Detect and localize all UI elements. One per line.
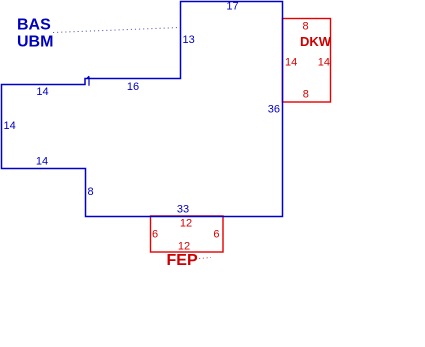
svg-text:12: 12 (178, 241, 190, 253)
svg-text:6: 6 (213, 229, 219, 241)
svg-text:8: 8 (302, 21, 308, 33)
svg-text:13: 13 (183, 34, 195, 46)
dim 1 jog (87, 76, 89, 86)
DKW addition rectangle (283, 19, 331, 103)
svg-text:8: 8 (88, 186, 94, 198)
svg-text:16: 16 (127, 81, 139, 93)
svg-text:FEP: FEP (167, 252, 198, 269)
svg-text:8: 8 (303, 89, 309, 101)
svg-text:14: 14 (36, 86, 48, 98)
svg-text:14: 14 (285, 57, 297, 69)
svg-text:14: 14 (36, 156, 48, 168)
svg-text:UBM: UBM (17, 34, 53, 51)
svg-text:17: 17 (226, 1, 238, 13)
svg-text:6: 6 (152, 229, 158, 241)
BAS/UBM building outline (2, 2, 283, 217)
svg-text:14: 14 (4, 120, 16, 132)
svg-text:BAS: BAS (17, 17, 51, 34)
svg-text:12: 12 (180, 218, 192, 230)
svg-text:DKW: DKW (300, 34, 332, 49)
svg-text:14: 14 (318, 57, 330, 69)
leader line from BAS/UBM label to outline (53, 28, 180, 33)
FEP porch rectangle (151, 216, 224, 252)
svg-text:36: 36 (268, 104, 280, 116)
leader line from FEP label (199, 258, 211, 259)
svg-text:33: 33 (177, 204, 189, 216)
